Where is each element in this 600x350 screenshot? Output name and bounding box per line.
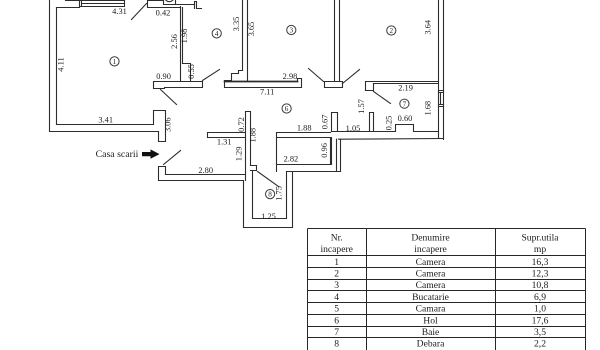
entry corner step bbox=[159, 167, 166, 181]
svg-text:1.88: 1.88 bbox=[297, 124, 312, 133]
room 3 circle bbox=[287, 25, 296, 34]
svg-text:5: 5 bbox=[334, 304, 339, 315]
svg-text:6,9: 6,9 bbox=[534, 292, 546, 303]
svg-text:0.42: 0.42 bbox=[156, 8, 171, 17]
svg-text:1.88: 1.88 bbox=[249, 128, 258, 143]
svg-text:Casa scarii: Casa scarii bbox=[96, 149, 139, 160]
door: room 1 balcony door leaf bbox=[132, 4, 147, 20]
svg-text:Camera: Camera bbox=[416, 280, 447, 291]
T-bar: casa scarii jamb bbox=[154, 111, 166, 142]
door leaf: entry door bbox=[164, 151, 181, 165]
svg-text:2.80: 2.80 bbox=[198, 166, 213, 175]
svg-text:Nr.: Nr. bbox=[331, 233, 343, 244]
door nub: room 8 jamb bbox=[251, 166, 257, 171]
svg-text:Baie: Baie bbox=[422, 327, 440, 338]
svg-text:1.98: 1.98 bbox=[180, 29, 189, 44]
svg-text:0.96: 0.96 bbox=[320, 143, 329, 158]
svg-text:3.06: 3.06 bbox=[164, 117, 173, 132]
svg-text:2: 2 bbox=[390, 27, 394, 35]
svg-text:4.31: 4.31 bbox=[112, 7, 127, 16]
room 8 walls bbox=[244, 171, 293, 228]
svg-text:0.90: 0.90 bbox=[156, 72, 171, 81]
svg-text:0.25: 0.25 bbox=[385, 116, 394, 131]
svg-text:Bucatarie: Bucatarie bbox=[412, 292, 449, 303]
wall: top of room 1 with sill bbox=[57, 1, 125, 8]
wall: bottom exterior under baie bbox=[339, 138, 444, 141]
wall: room 3 / room 2 bbox=[335, 1, 340, 82]
svg-text:1.29: 1.29 bbox=[235, 147, 244, 162]
room 7 circle bbox=[400, 99, 409, 108]
door leaf: hall door from band notch bbox=[161, 90, 177, 105]
wall: room 4 south band with 0.90 door bbox=[154, 82, 203, 89]
wall: baie south interior line with duct step bbox=[332, 125, 439, 132]
window: baie small window on right wall bbox=[439, 91, 444, 107]
svg-text:2.19: 2.19 bbox=[398, 83, 413, 92]
door nub: baie door jamb bbox=[366, 84, 374, 91]
svg-text:4.11: 4.11 bbox=[56, 57, 65, 71]
wall foot: base of room 2/3 wall bbox=[325, 82, 343, 88]
wall: room 1 south (3.41) bbox=[50, 125, 159, 132]
table row lines bbox=[308, 256, 586, 338]
wall nub: top-left corner of room 4 bbox=[195, 2, 202, 9]
room 2 circle bbox=[387, 26, 396, 35]
wall A: 1.31 wall bbox=[208, 133, 246, 138]
svg-text:2.56: 2.56 bbox=[170, 34, 179, 49]
door leaf: baie door bbox=[374, 92, 391, 104]
svg-text:10,8: 10,8 bbox=[532, 280, 549, 291]
svg-text:0.55: 0.55 bbox=[187, 64, 196, 79]
wall: south of camara (2.82) bbox=[277, 165, 341, 172]
svg-text:3.65: 3.65 bbox=[247, 22, 256, 37]
svg-text:Denumire: Denumire bbox=[411, 233, 449, 244]
svg-text:3.64: 3.64 bbox=[423, 19, 432, 34]
pillar: door jamb right (1.57) bbox=[370, 113, 374, 132]
svg-text:1.25: 1.25 bbox=[261, 212, 276, 221]
svg-text:1.31: 1.31 bbox=[217, 137, 232, 146]
table bbox=[308, 229, 586, 350]
svg-text:4: 4 bbox=[215, 30, 219, 38]
wall: between room 1 and room 4 bbox=[181, 7, 183, 82]
svg-text:3,5: 3,5 bbox=[534, 327, 546, 338]
svg-text:1: 1 bbox=[334, 257, 339, 268]
room 8 circle bbox=[266, 190, 275, 199]
room number 5 circle (clipped at top) bbox=[165, 0, 174, 2]
svg-text:incapere: incapere bbox=[320, 244, 353, 255]
svg-text:7.11: 7.11 bbox=[260, 87, 274, 96]
svg-text:1.05: 1.05 bbox=[346, 124, 361, 133]
svg-text:3: 3 bbox=[290, 27, 294, 35]
svg-text:8: 8 bbox=[268, 191, 272, 199]
wall: stub right of balcony door bbox=[148, 1, 181, 8]
svg-text:2: 2 bbox=[334, 269, 339, 280]
wall: south of room 2 / north of baie bbox=[366, 82, 439, 91]
wall: room 4 / room 3 bbox=[243, 1, 248, 82]
svg-text:Camera: Camera bbox=[416, 257, 447, 268]
svg-text:incapere: incapere bbox=[414, 244, 447, 255]
svg-text:Supr.utila: Supr.utila bbox=[521, 233, 559, 244]
svg-text:1,0: 1,0 bbox=[534, 304, 546, 315]
svg-text:1: 1 bbox=[113, 58, 117, 66]
svg-text:3: 3 bbox=[334, 280, 339, 291]
wall: hol north (7.11) with room 3 door opening bbox=[225, 81, 298, 83]
room 4 circle bbox=[212, 29, 221, 38]
svg-text:7: 7 bbox=[334, 327, 339, 338]
wall B: vertical 0.72/1.88/1.29 wall bbox=[246, 112, 251, 181]
wall: left exterior of room 1 bbox=[50, 1, 57, 132]
door leaf: room 2 door bbox=[343, 70, 360, 84]
svg-text:16,3: 16,3 bbox=[532, 257, 549, 268]
wall: exterior step down right of camara bbox=[337, 139, 341, 171]
svg-text:mp: mp bbox=[534, 244, 546, 255]
room 6 circle bbox=[282, 104, 291, 113]
svg-text:12,3: 12,3 bbox=[532, 269, 549, 280]
table column dividers bbox=[367, 229, 496, 350]
room 1 circle bbox=[110, 57, 119, 66]
svg-text:0.72: 0.72 bbox=[237, 117, 246, 132]
svg-text:4: 4 bbox=[334, 292, 339, 303]
door leaf: room 3 door bbox=[309, 69, 324, 82]
table outer border bbox=[308, 229, 586, 350]
arrow bbox=[142, 149, 160, 158]
svg-text:6: 6 bbox=[334, 315, 339, 326]
svg-text:Hol: Hol bbox=[423, 315, 438, 326]
svg-text:1.68: 1.68 bbox=[423, 101, 432, 116]
svg-text:Debara: Debara bbox=[417, 339, 445, 350]
svg-text:7: 7 bbox=[403, 100, 407, 108]
svg-text:0.60: 0.60 bbox=[398, 114, 413, 123]
wall: right exterior bbox=[439, 1, 444, 140]
wall jog 0.55 bbox=[183, 64, 191, 81]
svg-text:2,2: 2,2 bbox=[534, 339, 546, 350]
svg-text:2.82: 2.82 bbox=[284, 155, 299, 164]
svg-text:8: 8 bbox=[334, 339, 339, 350]
svg-text:3.35: 3.35 bbox=[232, 17, 241, 32]
wall steps: room 4 bottom-right corner bbox=[225, 71, 243, 87]
svg-text:0.67: 0.67 bbox=[321, 115, 330, 130]
svg-text:2.98: 2.98 bbox=[283, 72, 298, 81]
dimension texts bbox=[56, 7, 432, 221]
svg-text:1.57: 1.57 bbox=[357, 99, 366, 114]
camara room 5 box bbox=[277, 138, 332, 165]
pillar: door jamb left (0.67) bbox=[332, 113, 338, 132]
wall: hol/camara separator (1.88 horizontal) bbox=[277, 133, 331, 138]
window: room 1 top window bbox=[80, 1, 125, 7]
svg-text:6: 6 bbox=[285, 105, 289, 113]
door leaf: 0.90 door swinging up-right bbox=[203, 70, 220, 81]
svg-text:Camera: Camera bbox=[416, 269, 447, 280]
room number circles bbox=[110, 25, 409, 198]
room 5 (camara sus) box cut at top bbox=[164, 1, 195, 5]
door leaf: room 8 door bbox=[258, 172, 279, 187]
svg-text:Camara: Camara bbox=[416, 304, 447, 315]
svg-text:17,6: 17,6 bbox=[532, 315, 549, 326]
svg-text:1.75: 1.75 bbox=[274, 186, 283, 201]
wall: corridor 2.80 bbox=[159, 175, 246, 181]
svg-text:3.41: 3.41 bbox=[98, 115, 113, 124]
